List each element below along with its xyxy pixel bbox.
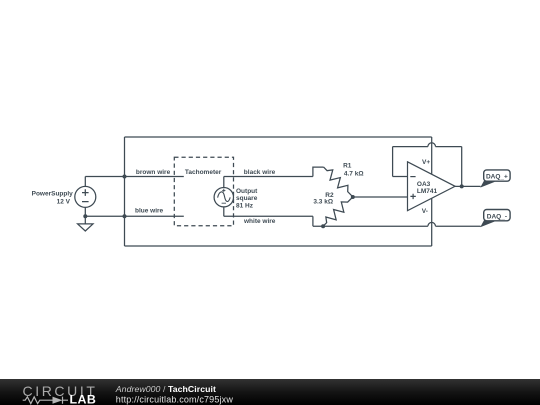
svg-text:12 V: 12 V: [57, 198, 71, 205]
svg-text:square: square: [236, 195, 258, 202]
svg-text:LAB: LAB: [70, 393, 97, 405]
junction: supply negative / ground: [83, 214, 87, 218]
wire: white wire step down: [312, 216, 314, 226]
svg-text:Tachometer: Tachometer: [185, 169, 222, 176]
wire: black wire step up to R1: [313, 167, 324, 176]
wire: ground rail bottom edge: [125, 245, 432, 247]
ground symbol: [78, 224, 93, 231]
svg-text:V-: V-: [422, 208, 428, 215]
label R2 3.3 kΩ: [313, 192, 334, 206]
footer bar: [0, 379, 540, 405]
label PowerSupply 12 V: [32, 190, 74, 205]
wire: brown wire (node +12V): [85, 176, 184, 178]
wire: power supply positive lead: [84, 177, 86, 187]
wire: white wire: [224, 215, 313, 217]
wire: supply rail left edge: [124, 137, 126, 246]
junction: blue wire / left rail: [123, 214, 127, 218]
junction: R2 tap on white wire: [321, 224, 325, 228]
terminal flag DAQ_+: [480, 170, 510, 188]
svg-text:black wire: black wire: [244, 169, 276, 176]
wire: op-amp - input lead: [393, 176, 408, 178]
svg-text:brown wire: brown wire: [136, 169, 171, 176]
svg-text:blue wire: blue wire: [135, 208, 164, 215]
wire: feedback right vertical: [461, 147, 463, 187]
wire: feedback top run with hop over V+: [393, 143, 462, 147]
wire: feedback left vertical: [392, 147, 394, 177]
wire: supply rail top edge: [125, 136, 432, 138]
voltage source V2 (Output square 81 Hz): [214, 188, 233, 207]
wire: power supply negative lead: [84, 208, 86, 217]
svg-text:DAQ_-: DAQ_-: [487, 213, 507, 220]
wire: blue wire (ground node): [85, 215, 184, 217]
svg-text:V+: V+: [422, 159, 430, 166]
svg-text:DAQ_+: DAQ_+: [486, 174, 508, 181]
wire: tachometer source top lead: [223, 177, 225, 188]
svg-text:white wire: white wire: [243, 218, 276, 225]
svg-text:3.3 kΩ: 3.3 kΩ: [313, 199, 333, 206]
wire: divider node to op-amp + input: [353, 196, 408, 198]
svg-text:Output: Output: [236, 188, 258, 195]
junction: output / feedback: [460, 184, 464, 188]
label R1 4.7 kΩ: [343, 163, 363, 178]
op-amp OA3 LM741: [408, 162, 456, 211]
wire: tachometer source bottom lead: [223, 207, 225, 216]
junction: brown wire / left rail: [123, 175, 127, 179]
wire: ground stub: [84, 216, 86, 224]
svg-text:http://circuitlab.com/c795jxw: http://circuitlab.com/c795jxw: [116, 395, 234, 405]
svg-text:PowerSupply: PowerSupply: [32, 190, 74, 197]
svg-text:81 Hz: 81 Hz: [236, 202, 254, 209]
wire: white wire run to DAQ_- with hop over V-: [313, 222, 481, 226]
svg-text:4.7 kΩ: 4.7 kΩ: [344, 170, 364, 177]
resistor R1: [320, 164, 356, 200]
logo resistor-diode line: [23, 397, 68, 404]
svg-text:LM741: LM741: [417, 188, 438, 195]
label OA3 LM741: [417, 181, 438, 195]
tachometer dashed enclosure: [174, 157, 233, 225]
wire: V- pin drop: [431, 198, 433, 246]
svg-text:OA3: OA3: [417, 181, 431, 188]
power supply V1 (PowerSupply 12 V): [75, 186, 96, 207]
wire: black wire: [224, 176, 313, 178]
svg-text:R1: R1: [343, 163, 352, 170]
label Output square 81 Hz: [236, 188, 258, 209]
resistor R2: [320, 194, 356, 230]
junction: R1-R2 divider node: [351, 195, 355, 199]
terminal flag DAQ_-: [480, 210, 510, 228]
wire: op-amp output: [455, 185, 481, 187]
svg-text:Andrew000 / TachCircuit: Andrew000 / TachCircuit: [115, 384, 216, 394]
wire: V+ pin drop: [431, 137, 433, 174]
